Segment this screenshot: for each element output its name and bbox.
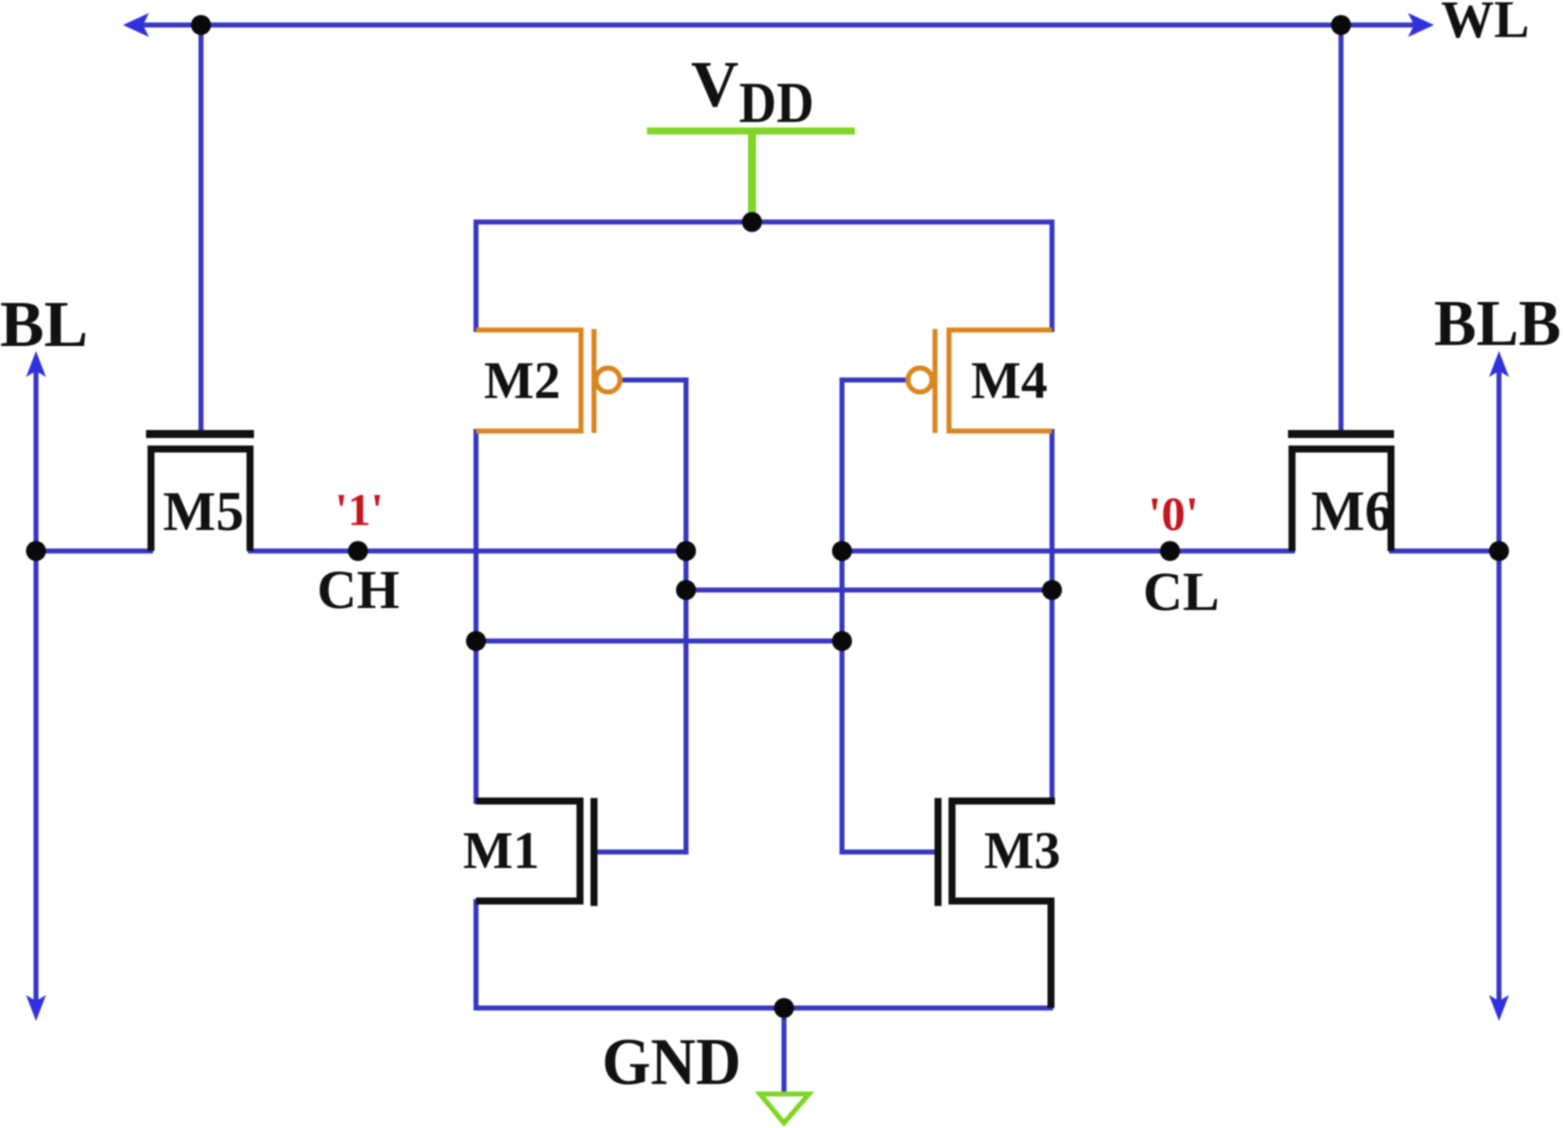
svg-text:WL: WL xyxy=(1441,0,1529,49)
svg-text:BLB: BLB xyxy=(1434,287,1561,360)
svg-text:M5: M5 xyxy=(163,481,244,543)
svg-text:DD: DD xyxy=(739,70,814,135)
svg-text:M3: M3 xyxy=(984,822,1061,880)
svg-text:CH: CH xyxy=(317,559,400,620)
svg-text:'0': '0' xyxy=(1148,488,1199,541)
svg-text:BL: BL xyxy=(0,288,88,361)
svg-text:GND: GND xyxy=(602,1025,741,1099)
svg-text:V: V xyxy=(691,48,739,121)
svg-text:'1': '1' xyxy=(335,484,384,535)
svg-text:M2: M2 xyxy=(484,352,561,410)
svg-text:M4: M4 xyxy=(971,352,1048,410)
svg-text:CL: CL xyxy=(1143,561,1219,622)
svg-text:M6: M6 xyxy=(1311,480,1393,543)
svg-text:M1: M1 xyxy=(463,822,540,880)
